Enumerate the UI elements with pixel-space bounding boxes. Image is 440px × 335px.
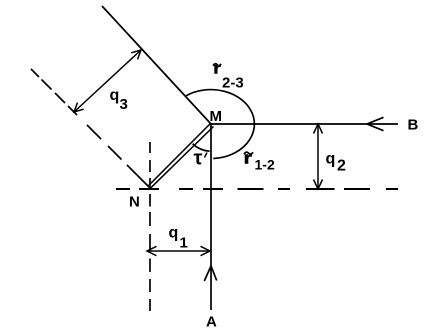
svg-text:3: 3	[120, 96, 128, 113]
angle arc r2-3 / r1-2 (big arc around M from diagonal to vertical)	[186, 90, 254, 159]
svg-text:2: 2	[337, 157, 346, 174]
svg-text:q: q	[169, 225, 179, 242]
svg-text:1-2: 1-2	[255, 157, 275, 173]
wire: reflected ray from M up-left (mirror 2 to mirror 3 path)	[102, 6, 211, 124]
svg-text:r: r	[213, 61, 221, 78]
svg-text:2-3: 2-3	[222, 75, 244, 92]
arrowhead on ray A (pointing up)	[204, 266, 216, 281]
svg-text:A: A	[206, 314, 217, 331]
dimension arrow q2 (double-headed vertical)	[314, 124, 323, 189]
svg-text:B: B	[408, 117, 419, 134]
double line ray M to N	[148, 123, 213, 188]
dashed diagonal line (mirror 3 plane) through N	[31, 69, 151, 189]
dashed vertical line through N	[149, 142, 151, 311]
svg-text:r: r	[244, 149, 253, 168]
dimension arrow q1 (double-headed horizontal)	[147, 246, 210, 255]
svg-text:1: 1	[180, 235, 188, 252]
svg-text:M: M	[210, 108, 223, 125]
svg-text:N: N	[129, 194, 140, 211]
dimension arrow q3 (double-headed, perpendicular between diagonals)	[74, 50, 141, 112]
svg-text:q: q	[110, 87, 120, 104]
arrowhead on ray B (pointing left toward M)	[367, 117, 384, 130]
wire: horizontal ray B to M	[211, 123, 398, 125]
angle arc tau (small arc between MN and vertical)	[193, 144, 210, 152]
wire: vertical ray A up to M	[210, 124, 212, 310]
dashed horizontal line through N	[116, 188, 398, 190]
svg-text:q: q	[326, 151, 336, 168]
svg-text:τ: τ	[194, 148, 203, 170]
